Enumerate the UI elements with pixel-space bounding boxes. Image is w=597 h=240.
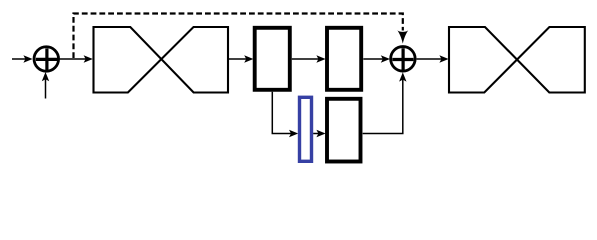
wire S1 to block B1 (58, 55, 93, 62)
wire B2 to block B3 (292, 55, 326, 62)
block B3 (tall rectangle) (327, 28, 361, 90)
wire input (12, 55, 33, 62)
summing junction S1 (34, 47, 59, 72)
wire B4 to block B5 (313, 130, 325, 137)
block B4 (thin blue rectangle) (300, 97, 312, 161)
block B1 (crossed bowtie box) (94, 27, 229, 93)
arrowhead (V) of dashed wire into S2 (397, 30, 408, 43)
summing junction S2 (391, 47, 416, 72)
wire B3 to S2 (363, 55, 390, 62)
wire B2 down to block B4 (272, 92, 298, 137)
wire B5 up into S2 from below (363, 72, 407, 133)
block B5 (tall rectangle) (327, 99, 361, 162)
wire arrow into S1 from below (42, 72, 49, 99)
dashed feedforward wire (74, 14, 403, 59)
block B2 (tall rectangle) (255, 28, 290, 90)
wire B1 to block B2 (229, 55, 253, 62)
block B6 (crossed bowtie box) (449, 27, 585, 93)
wire S2 to block B6 (417, 55, 449, 62)
